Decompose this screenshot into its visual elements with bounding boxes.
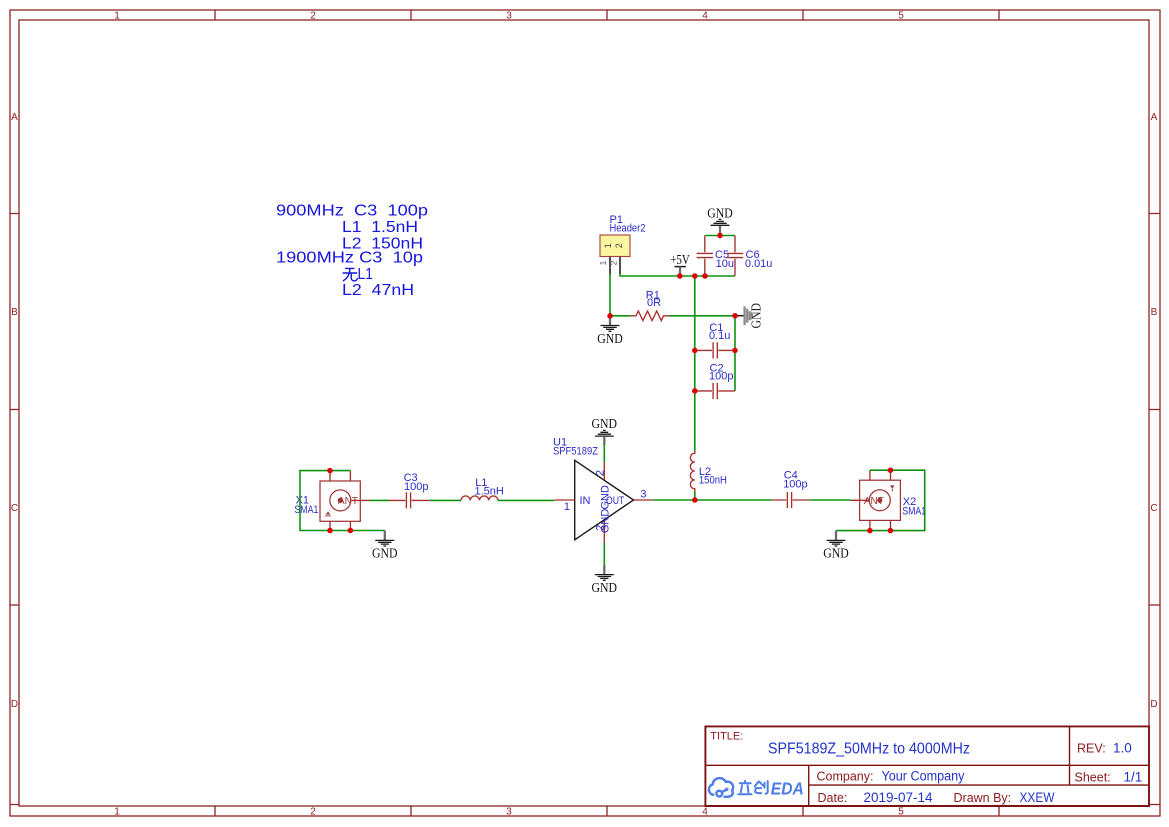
svg-text:1: 1 [598, 260, 608, 265]
svg-text:SPF5189Z_50MHz to 4000MHz: SPF5189Z_50MHz to 4000MHz [768, 741, 970, 758]
svg-text:1/1: 1/1 [1124, 770, 1143, 785]
svg-text:2: 2 [595, 470, 607, 476]
junction P1 pin1 / R1 / ground [607, 313, 613, 319]
capacitor C4 [771, 469, 809, 508]
junction C1 left [692, 348, 698, 354]
wire L1 to U1 input [498, 499, 554, 501]
svg-text:1: 1 [114, 807, 120, 818]
svg-text:1: 1 [564, 501, 570, 513]
立创EDA logo [709, 778, 733, 797]
connector P1 Header2 [598, 214, 646, 275]
svg-text:GND: GND [599, 509, 611, 534]
junction X1 top pin [327, 468, 333, 474]
svg-text:Header2: Header2 [610, 223, 646, 235]
svg-text:Company:: Company: [817, 770, 874, 784]
svg-text:900MHz C3 100p: 900MHz C3 100p [276, 203, 428, 220]
svg-text:100p: 100p [404, 481, 428, 493]
svg-text:2: 2 [609, 260, 619, 265]
svg-text:XXEW: XXEW [1020, 790, 1055, 805]
svg-text:Drawn By:: Drawn By: [954, 791, 1012, 805]
ground (below X1) [372, 531, 398, 561]
svg-text:2: 2 [614, 243, 624, 248]
ground (below U1) [592, 543, 618, 595]
svg-text:10u: 10u [716, 258, 734, 270]
svg-text:4: 4 [702, 11, 708, 22]
ground (right of C1, rotated) [735, 303, 764, 329]
svg-text:TITLE:: TITLE: [710, 731, 743, 743]
svg-text:D: D [11, 699, 18, 710]
svg-text:ANT: ANT [338, 496, 358, 507]
svg-text:0.01u: 0.01u [745, 258, 773, 270]
svg-text:2: 2 [310, 807, 316, 818]
svg-text:1900MHz C3 10p: 1900MHz C3 10p [276, 250, 423, 267]
svg-text:C: C [1150, 503, 1157, 514]
junction X2 bottom pin 2 [888, 528, 894, 534]
svg-text:2: 2 [310, 11, 316, 22]
wire C1/C2 right branch [734, 316, 736, 391]
wire U1 output to C4 [653, 499, 771, 501]
svg-text:D: D [1150, 699, 1157, 710]
junction R1 / C1 / ground branch [732, 313, 738, 319]
capacitor C3 [389, 472, 430, 509]
connector X1 SMA1 [294, 471, 370, 531]
svg-text:100p: 100p [709, 371, 733, 383]
resistor R1 [610, 290, 735, 321]
svg-text:Date:: Date: [818, 791, 848, 805]
svg-text:+5V: +5V [670, 252, 690, 267]
svg-text:1.0: 1.0 [1113, 741, 1132, 756]
junction X2 top pin [888, 467, 894, 473]
svg-text:100p: 100p [783, 479, 807, 491]
svg-text:4: 4 [702, 807, 708, 818]
wire X2 ground loop [836, 470, 925, 530]
capacitor C6 [727, 236, 773, 277]
svg-text:REV:: REV: [1077, 742, 1106, 756]
svg-text:Your Company: Your Company [882, 769, 965, 784]
svg-text:GND: GND [592, 580, 618, 595]
svg-text:C: C [11, 503, 18, 514]
svg-text:0.1u: 0.1u [709, 330, 730, 342]
wire P1 pin1 to node [609, 274, 611, 316]
svg-text:5: 5 [898, 11, 904, 22]
svg-text:3: 3 [506, 11, 512, 22]
svg-text:5: 5 [898, 807, 904, 818]
svg-text:1: 1 [603, 243, 613, 248]
connector X2 SMA1 [851, 470, 926, 530]
svg-text:0R: 0R [647, 297, 661, 309]
inductor L1 [461, 477, 504, 500]
junction C1 right [732, 348, 738, 354]
ground (above U1) [592, 416, 618, 462]
junction ground / C5 C6 top [717, 233, 723, 239]
svg-text:A: A [11, 112, 18, 123]
wire C5/C6 top [705, 235, 735, 237]
svg-text:ANT: ANT [864, 496, 884, 507]
svg-text:GND: GND [592, 416, 618, 431]
wire +5V rail vertical [694, 276, 696, 451]
svg-text:GND: GND [823, 546, 849, 561]
wire C4 to X2 [810, 499, 851, 501]
svg-text:SMA1: SMA1 [902, 506, 926, 518]
svg-text:GND: GND [749, 303, 764, 329]
svg-text:GND: GND [707, 206, 733, 221]
title block [705, 726, 1149, 806]
op-amp U1 SPF5189Z [553, 437, 653, 545]
capacitor C5 [697, 236, 734, 277]
svg-text:2019-07-14: 2019-07-14 [864, 790, 934, 805]
ground (below X2) [823, 531, 849, 561]
junction X2 bottom pin 1 [867, 528, 873, 534]
svg-text:3: 3 [506, 807, 512, 818]
wire X1 ground loop [300, 471, 385, 531]
svg-text:B: B [11, 307, 18, 318]
junction C2 left [692, 388, 698, 394]
ground (above C5/C6) [707, 206, 733, 236]
svg-text:L1: L1 [358, 266, 373, 283]
capacitor C2 [695, 362, 735, 399]
svg-text:SMA1: SMA1 [294, 504, 318, 516]
svg-text:3: 3 [640, 489, 646, 501]
wire C3 to L1 [430, 499, 461, 501]
inductor L2 [690, 451, 727, 492]
svg-text:1.5nH: 1.5nH [475, 485, 504, 497]
wire L2 to output node [694, 491, 696, 500]
svg-text:GND: GND [597, 331, 623, 346]
svg-text:SPF5189Z: SPF5189Z [553, 446, 598, 458]
svg-text:A: A [1151, 112, 1158, 123]
svg-text:L2 47nH: L2 47nH [342, 282, 414, 299]
svg-text:150nH: 150nH [699, 474, 727, 486]
svg-text:GND: GND [599, 485, 611, 510]
junction X1 bottom pin 1 [327, 528, 333, 534]
ground (below P1) [597, 316, 623, 346]
svg-text:GND: GND [372, 546, 398, 561]
svg-text:EDA: EDA [771, 778, 804, 798]
junction +5V rail [692, 273, 698, 279]
svg-text:L1 1.5nH: L1 1.5nH [342, 219, 418, 236]
power +5V [670, 252, 690, 276]
svg-text:B: B [1151, 307, 1158, 318]
junction C5 bottom [702, 273, 708, 279]
junction X1 bottom pin 2 [348, 528, 354, 534]
junction U1 output / L2 [692, 497, 698, 503]
capacitor C1 [695, 322, 735, 359]
svg-text:1: 1 [114, 11, 120, 22]
svg-text:IN: IN [580, 495, 591, 507]
wire P1 pin2 to +5V rail [620, 274, 735, 277]
svg-text:Sheet:: Sheet: [1075, 771, 1111, 785]
note text annotation [276, 203, 428, 299]
wire X1 to C3 [370, 499, 389, 501]
junction +5V tap [677, 273, 683, 279]
